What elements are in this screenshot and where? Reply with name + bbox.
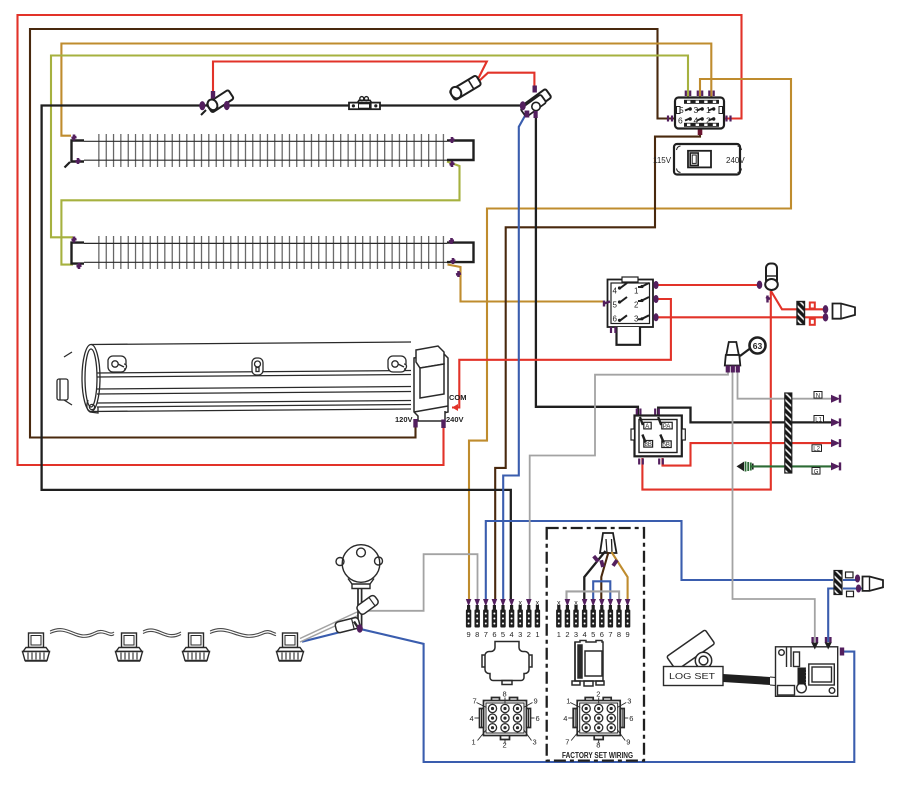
left 9-pin connector xyxy=(480,698,531,740)
heater terminal pin xyxy=(450,161,455,167)
wire grey (sensor 63 to wall terminal N) xyxy=(738,370,832,399)
junction hatched connector xyxy=(834,571,842,595)
connector block J1 xyxy=(668,91,731,129)
svg-text:5: 5 xyxy=(501,630,505,639)
wire tan (heater1 left to connector pin 1) xyxy=(61,44,711,136)
heater terminal pin xyxy=(456,271,461,277)
ground screw symbol xyxy=(737,462,745,472)
svg-text:G: G xyxy=(814,469,819,475)
terminal pin xyxy=(518,605,523,639)
terminal G xyxy=(812,468,820,475)
wire red (capsule down to relay block 8B) xyxy=(642,291,770,490)
terminal pin xyxy=(565,599,571,639)
heating element 2 right bracket xyxy=(447,243,474,263)
wire blue (junction box to wire nut) xyxy=(843,580,862,589)
wire grey lamp cord pair xyxy=(300,612,358,642)
svg-text:8: 8 xyxy=(503,690,507,699)
thermal cutout TC2 xyxy=(520,86,552,119)
wire grey (left strip pin 2 to sensor 63) xyxy=(530,370,728,600)
factory set wiring dash-dot box xyxy=(547,528,644,761)
heating element 1 coil xyxy=(84,134,447,167)
svg-text:63: 63 xyxy=(753,341,763,351)
terminal pin xyxy=(608,599,614,639)
wire red (relay pin1 to capsule) xyxy=(654,284,760,286)
svg-text:4: 4 xyxy=(613,287,618,296)
svg-text:5: 5 xyxy=(591,630,595,639)
board pin grey xyxy=(813,637,817,643)
svg-text:L2: L2 xyxy=(813,447,820,453)
terminal pin xyxy=(582,599,588,639)
wire blue (cutout 2 to left strip pin 5) xyxy=(503,114,526,600)
terminal pin xyxy=(599,599,605,639)
control board xyxy=(776,647,838,697)
lamp xyxy=(23,633,50,661)
board pin blue xyxy=(826,637,830,643)
wire red (relay pin2 to blower COM) xyxy=(452,299,671,408)
wire red (cutout 1 to bulb sensor) xyxy=(213,62,487,100)
svg-text:5: 5 xyxy=(613,301,618,310)
heater terminal pin xyxy=(449,238,454,244)
wire blue (control board to lamp string) xyxy=(302,628,854,762)
blower cross-flow fan xyxy=(57,342,411,413)
bulb sensor xyxy=(449,75,482,100)
svg-text:7: 7 xyxy=(565,738,569,747)
svg-text:9: 9 xyxy=(626,630,630,639)
lamp xyxy=(277,633,304,661)
svg-text:4: 4 xyxy=(470,714,474,723)
heater terminal pin xyxy=(77,263,82,269)
svg-text:x: x xyxy=(536,600,540,607)
svg-text:5B: 5B xyxy=(663,443,670,449)
cable connector xyxy=(799,666,807,688)
svg-text:3: 3 xyxy=(627,697,631,706)
svg-text:COM: COM xyxy=(449,393,467,402)
relay block A/PA xyxy=(631,409,685,465)
wall plate hatched bar xyxy=(785,393,792,473)
left plug housing xyxy=(482,642,532,685)
svg-text:6: 6 xyxy=(600,630,604,639)
thermal cutout TC1 xyxy=(199,90,234,115)
terminal pin xyxy=(474,599,480,639)
heater terminal pin xyxy=(72,135,77,141)
harness wire brown to pin 6 xyxy=(601,552,608,600)
relay K1 xyxy=(604,277,659,345)
blower mounting tab 1 xyxy=(108,356,127,372)
wire grey (flame motor to left strip pin 8) xyxy=(364,554,478,611)
terminal pin xyxy=(492,599,498,639)
right 9-pin connector xyxy=(573,698,624,740)
svg-text:2: 2 xyxy=(596,690,600,699)
heating element 2 coil xyxy=(84,236,447,269)
LOG SET label box xyxy=(664,667,724,686)
lamp socket 1 xyxy=(356,594,380,615)
jumper blue pins 5-7 xyxy=(593,581,610,602)
svg-text:1: 1 xyxy=(535,630,539,639)
terminal pin xyxy=(500,599,506,639)
svg-text:6: 6 xyxy=(613,315,618,324)
lamp string wire xyxy=(50,629,276,638)
wire dark-brown (switch pin 4 to left terminal strip pin 6) xyxy=(495,131,700,600)
board pin blue right xyxy=(840,648,844,656)
heater terminal pin xyxy=(72,237,77,243)
svg-text:3: 3 xyxy=(574,630,578,639)
wire blue (left strip pin 7 to junction box) xyxy=(486,521,833,600)
svg-text:8: 8 xyxy=(475,630,479,639)
terminal N xyxy=(814,392,822,399)
terminal L1 xyxy=(814,416,824,423)
svg-text:6: 6 xyxy=(629,714,633,723)
harness plug xyxy=(600,533,617,553)
svg-text:x: x xyxy=(557,600,561,607)
heating element 1 right bracket xyxy=(447,141,474,161)
wire olive (heater2 top-left to connector pin 5) xyxy=(51,56,688,238)
svg-text:6: 6 xyxy=(678,116,683,126)
wire dark-brown loop (120V supply, pin 6 to blower) xyxy=(30,29,674,438)
svg-text:x: x xyxy=(574,600,578,607)
wire nut blue xyxy=(863,577,884,591)
svg-text:3: 3 xyxy=(533,738,537,747)
svg-text:120V: 120V xyxy=(395,415,413,424)
blower mounting tab 2 xyxy=(252,358,263,375)
svg-text:9: 9 xyxy=(626,738,630,747)
svg-text:4: 4 xyxy=(510,630,514,639)
heater terminal pin xyxy=(450,137,455,143)
svg-text:8B: 8B xyxy=(645,442,652,448)
callout 63 xyxy=(740,349,750,357)
wire red (capsule to fuse link upper) xyxy=(771,291,824,309)
wire tan (heater2 bottom-right to relay pin 5) xyxy=(448,265,606,302)
wire red (relay pin3 to fuse link) xyxy=(654,316,824,318)
svg-text:115V: 115V xyxy=(653,156,672,165)
capsule sensor xyxy=(757,264,778,303)
svg-text:PA: PA xyxy=(663,424,671,430)
wire red (bulb sensor to cutout 2) xyxy=(479,73,535,92)
svg-text:6: 6 xyxy=(492,630,496,639)
terminal pin xyxy=(616,599,622,639)
svg-text:LOG SET: LOG SET xyxy=(669,671,715,681)
thermostat TS1 xyxy=(349,97,380,110)
log donut xyxy=(695,652,711,668)
svg-text:5: 5 xyxy=(679,105,684,115)
terminal pin xyxy=(573,605,578,639)
wire maroon stub pin 4 xyxy=(698,126,703,135)
wire black AC line with thermal cutouts xyxy=(42,106,522,601)
wire red (block 5B to wall terminal L2) xyxy=(663,443,832,466)
wire tan (connector pin 3 down to terminal strip pin 9) xyxy=(469,79,791,600)
terminal pin xyxy=(466,599,472,639)
relay base xyxy=(617,327,641,345)
svg-text:8: 8 xyxy=(617,630,621,639)
wire black (block PA to wall terminal L1) xyxy=(658,408,831,423)
terminal pin xyxy=(556,605,561,639)
terminal pin xyxy=(509,599,515,639)
blower motor xyxy=(414,346,448,421)
svg-text:1: 1 xyxy=(566,697,570,706)
wire red mains loop (240V supply to blower) xyxy=(18,15,742,465)
blower pins xyxy=(413,419,417,428)
fuse link (hatched) xyxy=(797,302,805,325)
terminal pin xyxy=(535,605,540,639)
lamp xyxy=(116,633,143,661)
wire grey (sensor 63 to control board) xyxy=(733,370,815,642)
heater terminal pin xyxy=(76,158,81,164)
svg-text:7: 7 xyxy=(473,697,477,706)
terminal pin xyxy=(483,599,489,639)
wire green (ground to wall terminal G) xyxy=(751,465,831,467)
terminal pin xyxy=(625,599,631,639)
svg-text:7: 7 xyxy=(484,630,488,639)
wire nut xyxy=(833,304,856,319)
svg-text:7: 7 xyxy=(608,630,612,639)
svg-text:9: 9 xyxy=(534,697,538,706)
heater terminal pin xyxy=(451,258,456,264)
terminal pin xyxy=(526,599,532,639)
blower mounting tab 3 xyxy=(388,356,407,372)
flame motor xyxy=(336,545,383,629)
wire olive (heater1 bottom-right to heater2 bottom-left) xyxy=(61,162,459,265)
wire black (cutout to relay block A) xyxy=(536,110,638,416)
right plug housing xyxy=(572,641,604,687)
svg-text:4: 4 xyxy=(563,714,567,723)
heating element 2 left bracket xyxy=(72,243,85,264)
wire blue (junction to control board) xyxy=(828,589,834,643)
svg-text:240V: 240V xyxy=(726,156,745,165)
jumper grey pins 2-8 xyxy=(567,591,620,602)
svg-text:6: 6 xyxy=(536,714,540,723)
svg-text:2: 2 xyxy=(565,630,569,639)
svg-text:1: 1 xyxy=(472,738,476,747)
terminal L2 xyxy=(812,445,822,452)
svg-text:9: 9 xyxy=(467,630,471,639)
connector pins red lines xyxy=(823,305,829,313)
svg-text:240V: 240V xyxy=(446,415,464,424)
sensor cone 63 xyxy=(725,338,766,373)
heating element 1 left bracket xyxy=(72,141,85,162)
svg-text:A: A xyxy=(645,424,649,430)
svg-text:L1: L1 xyxy=(815,417,822,423)
lamp socket 2 xyxy=(335,617,361,633)
harness wire black to pin 4 xyxy=(584,551,605,600)
svg-text:3: 3 xyxy=(518,630,522,639)
svg-text:x: x xyxy=(518,600,522,607)
terminal pin xyxy=(590,599,596,639)
log (tilted) xyxy=(667,630,715,671)
red spade terminals xyxy=(810,303,815,309)
voltage selector switch 115V/240V xyxy=(653,144,745,175)
lamp xyxy=(183,633,210,661)
svg-text:1: 1 xyxy=(557,630,561,639)
svg-text:N: N xyxy=(816,393,820,399)
svg-text:2: 2 xyxy=(527,630,531,639)
log set cable xyxy=(723,674,770,685)
svg-text:FACTORY SET WIRING: FACTORY SET WIRING xyxy=(562,751,633,760)
svg-text:4: 4 xyxy=(583,630,587,639)
harness wire tan to pin 9 xyxy=(612,552,628,600)
